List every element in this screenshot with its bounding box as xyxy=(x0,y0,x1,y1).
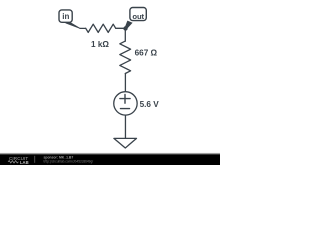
svg-text:LAB: LAB xyxy=(20,160,29,165)
svg-text:5.6 V: 5.6 V xyxy=(140,100,160,109)
svg-text:out: out xyxy=(132,12,144,21)
svg-text:in: in xyxy=(62,12,69,21)
svg-text:trttp:(/circuitlab.com/c/b452c: trttp:(/circuitlab.com/c/b452c8649g/ xyxy=(44,159,94,163)
svg-text:667 Ω: 667 Ω xyxy=(135,49,158,58)
svg-text:1 kΩ: 1 kΩ xyxy=(91,40,109,49)
